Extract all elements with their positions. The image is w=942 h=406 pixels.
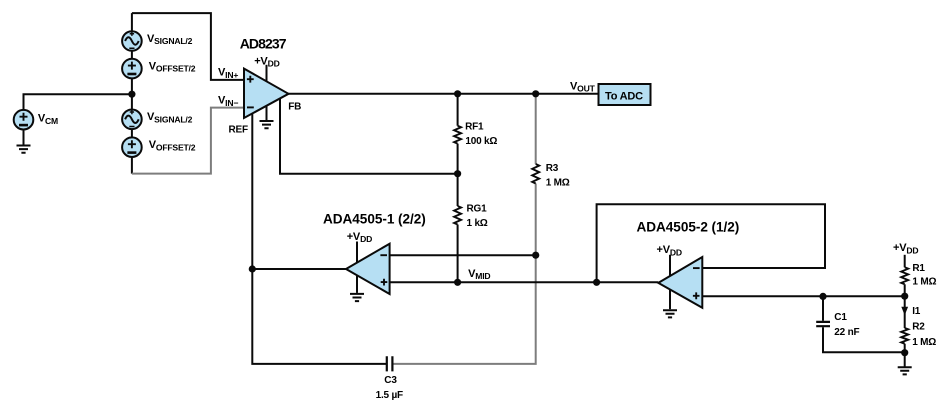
- resistor RG1: [454, 206, 461, 225]
- node junction dots: [128, 90, 908, 356]
- svg-text:1.5 µF: 1.5 µF: [376, 390, 403, 401]
- To ADC box: [599, 84, 651, 105]
- op-amp U3 ADA4505-2: [658, 257, 702, 308]
- wire VIN+ net: [132, 13, 244, 80]
- svg-text:ADA4505-1 (2/2): ADA4505-1 (2/2): [323, 212, 426, 227]
- svg-text:C1: C1: [834, 312, 847, 323]
- wire VIN- net: [132, 108, 244, 174]
- svg-text:REF: REF: [229, 125, 248, 136]
- wire V_CM top to chain junction: [24, 94, 132, 110]
- ground ADA4505-1: [350, 294, 364, 301]
- wire ADA4505-2 feedback loop: [597, 204, 825, 282]
- wire RF1 RG1 net: [457, 94, 459, 282]
- source V_SIGNAL/2 bottom: [122, 110, 142, 130]
- ground AD8237: [260, 121, 274, 128]
- resistor R1: [901, 267, 908, 284]
- op-amp U2 ADA4505-1: [346, 244, 390, 294]
- wire ADA4505-1 supply: [356, 242, 358, 293]
- ground R2: [898, 367, 912, 374]
- source V_OFFSET/2 bottom: [122, 137, 142, 157]
- source V_SIGNAL/2 top: [122, 31, 142, 51]
- svg-text:C3: C3: [384, 375, 397, 386]
- svg-text:1 MΩ: 1 MΩ: [912, 337, 936, 348]
- svg-text:1 MΩ: 1 MΩ: [546, 178, 570, 189]
- svg-text:ADA4505-2 (1/2): ADA4505-2 (1/2): [637, 220, 740, 235]
- wire ADA4505-1 minus input: [390, 254, 536, 256]
- svg-text:To ADC: To ADC: [605, 90, 643, 102]
- svg-text:I1: I1: [912, 306, 921, 317]
- wire ADA4505-2 supply: [669, 255, 671, 309]
- wire ADA4505-1 output: [252, 268, 346, 270]
- wire AD8237 supply: [266, 65, 268, 121]
- ground ADA4505-2: [663, 310, 677, 317]
- current arrow I1: [901, 307, 908, 316]
- svg-text:1 kΩ: 1 kΩ: [467, 218, 488, 229]
- wire REF net: [252, 108, 386, 364]
- svg-text:RF1: RF1: [465, 121, 484, 132]
- capacitor C3: [387, 356, 393, 371]
- svg-text:100 kΩ: 100 kΩ: [465, 136, 497, 147]
- wire R1 to R2 node: [904, 284, 906, 328]
- resistor R3: [532, 164, 539, 184]
- resistor RF1: [454, 126, 461, 144]
- svg-text:22 nF: 22 nF: [834, 327, 859, 338]
- source V_OFFSET/2 top: [122, 59, 142, 79]
- svg-text:RG1: RG1: [467, 204, 488, 215]
- svg-text:AD8237: AD8237: [240, 35, 287, 51]
- op-amp U1 AD8237: [244, 69, 289, 118]
- wire AD8237 output: [288, 93, 599, 95]
- wire R2 to ground: [904, 344, 906, 367]
- svg-text:R1: R1: [912, 263, 925, 274]
- svg-text:FB: FB: [288, 102, 301, 113]
- wire ADA4505-2 plus input: [702, 295, 904, 297]
- wire source chain segments: [131, 13, 133, 174]
- ground V_CM: [17, 146, 31, 153]
- wire VMID rail: [390, 281, 659, 283]
- wire V_CM to ground: [23, 130, 25, 145]
- svg-text:1 MΩ: 1 MΩ: [912, 276, 936, 287]
- svg-text:R2: R2: [912, 321, 925, 332]
- source V_CM: [14, 110, 34, 130]
- svg-text:R3: R3: [546, 163, 559, 174]
- capacitor C1: [816, 322, 830, 326]
- wire right supply: [904, 255, 906, 267]
- wire C1 net: [823, 296, 905, 352]
- resistor R2: [901, 328, 908, 344]
- wire R3 C3 net: [392, 94, 535, 364]
- wire FB net: [280, 98, 458, 174]
